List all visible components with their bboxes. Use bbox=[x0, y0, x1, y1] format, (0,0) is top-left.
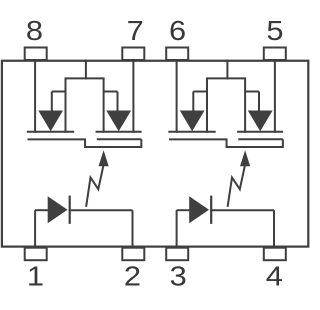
svg-text:2: 2 bbox=[124, 261, 141, 292]
svg-text:1: 1 bbox=[27, 261, 44, 292]
svg-text:4: 4 bbox=[266, 261, 283, 292]
svg-text:3: 3 bbox=[170, 261, 187, 292]
svg-text:6: 6 bbox=[169, 15, 186, 46]
svg-text:5: 5 bbox=[266, 15, 283, 46]
svg-text:8: 8 bbox=[26, 15, 43, 46]
svg-text:7: 7 bbox=[127, 15, 144, 46]
